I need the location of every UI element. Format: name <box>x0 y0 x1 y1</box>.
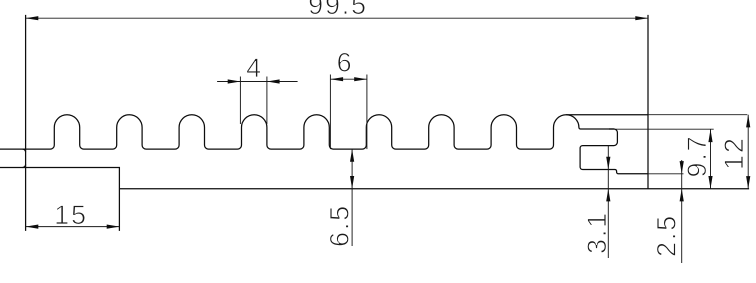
svg-text:6: 6 <box>337 48 354 78</box>
svg-text:12: 12 <box>719 136 749 170</box>
svg-text:99.5: 99.5 <box>308 0 368 20</box>
svg-text:9.7: 9.7 <box>682 135 712 178</box>
svg-text:2.5: 2.5 <box>652 214 682 257</box>
svg-text:4: 4 <box>246 53 263 83</box>
svg-text:15: 15 <box>54 200 88 230</box>
svg-text:6.5: 6.5 <box>325 204 355 247</box>
svg-text:3.1: 3.1 <box>582 211 612 254</box>
